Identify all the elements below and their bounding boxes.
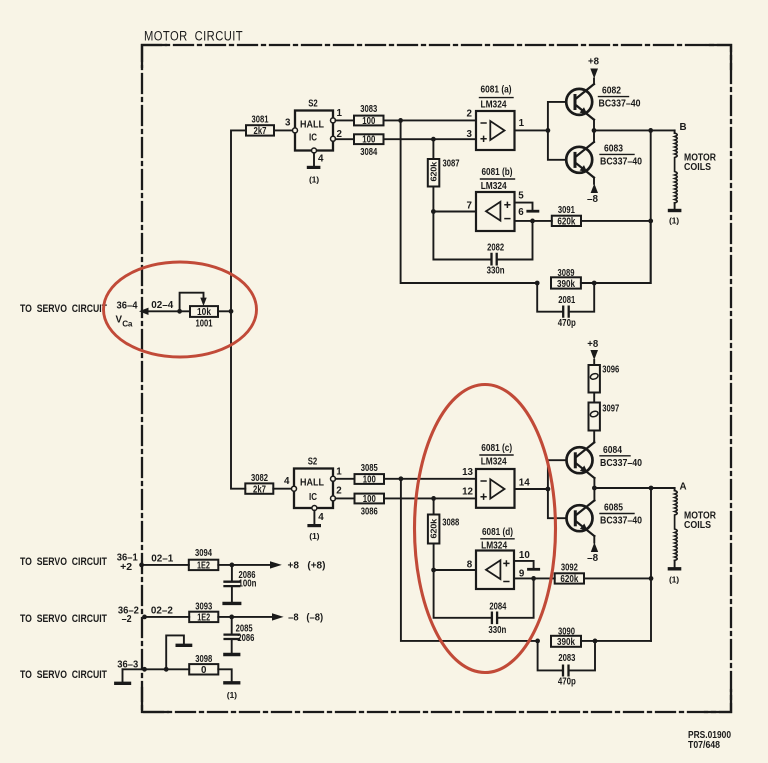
svg-text:1E2: 1E2 xyxy=(197,561,210,572)
resistor 3094 1E2 xyxy=(189,548,219,571)
svg-text:3089: 3089 xyxy=(558,268,575,279)
svg-text:2083: 2083 xyxy=(558,653,575,664)
svg-text:–8: –8 xyxy=(587,553,599,564)
svg-text:1: 1 xyxy=(519,118,525,129)
svg-text:BC337–40: BC337–40 xyxy=(600,458,642,469)
svg-text:6081 (c): 6081 (c) xyxy=(481,443,512,454)
op-amp U 6081(b) xyxy=(467,167,525,231)
svg-text:14: 14 xyxy=(519,478,530,489)
svg-text:100: 100 xyxy=(362,116,375,127)
capacitor 2086 100n xyxy=(224,565,256,604)
resistor 3081 2k7 xyxy=(246,115,274,138)
pin9 wire to 3092 xyxy=(514,577,555,579)
svg-text:3: 3 xyxy=(285,118,291,129)
row 36-1 +2 xyxy=(20,553,174,574)
svg-text:TO SERVO CIRCUIT: TO SERVO CIRCUIT xyxy=(20,613,107,625)
svg-text:6081 (a): 6081 (a) xyxy=(481,85,512,96)
svg-text:3081: 3081 xyxy=(252,115,269,126)
svg-text:1: 1 xyxy=(337,108,343,119)
svg-text:6083: 6083 xyxy=(604,144,623,155)
svg-text:COILS: COILS xyxy=(684,162,711,173)
wire 3081 to hall pin3 xyxy=(274,129,292,131)
frame dash-dot border xyxy=(142,45,731,712)
svg-text:620k: 620k xyxy=(557,217,575,228)
base bus for 6082/6083 xyxy=(548,102,567,160)
resistor 3088 620k vertical xyxy=(428,498,460,570)
row 36-2 -2 xyxy=(20,605,173,625)
svg-text:4: 4 xyxy=(318,512,324,523)
svg-text:620k: 620k xyxy=(560,574,578,585)
transistor Q 6082 BC337-40 xyxy=(566,84,641,120)
svg-text:3086: 3086 xyxy=(361,507,378,518)
svg-text:13: 13 xyxy=(462,467,473,478)
TO SERVO CIRCUIT Vca row xyxy=(20,300,174,329)
svg-text:IC: IC xyxy=(309,492,317,503)
vertical feedback wire x650.7 xyxy=(650,130,652,283)
svg-text:100n: 100n xyxy=(239,578,257,589)
left ground stub row3 xyxy=(122,669,124,681)
wire 3083 to opamp a pin2 xyxy=(384,119,477,121)
wire arrow to pot xyxy=(146,310,190,312)
resistor 3085 100 xyxy=(355,463,385,486)
wire pin2 to 3086 xyxy=(336,497,355,499)
resistor 3096 (0) xyxy=(587,339,619,393)
resistor 3092 620k xyxy=(555,563,584,586)
svg-text:0: 0 xyxy=(201,665,207,676)
svg-text:4: 4 xyxy=(284,476,290,487)
-8 supply arrow (lower) xyxy=(587,536,599,564)
wire: left vertical bus x=231 xyxy=(231,130,246,488)
svg-text:S2: S2 xyxy=(308,456,318,467)
op-amp U 6081(d) xyxy=(467,527,531,589)
resistor 3084 100 xyxy=(354,134,384,158)
svg-text:BC337–40: BC337–40 xyxy=(599,99,641,110)
ground under hall (lower) xyxy=(309,511,324,542)
svg-text:3091: 3091 xyxy=(558,205,575,216)
svg-text:1: 1 xyxy=(336,466,342,477)
hall IC S2 (upper) xyxy=(285,99,342,154)
svg-text:2082: 2082 xyxy=(487,242,504,253)
output 14 to base node xyxy=(515,488,548,490)
raised ground stub xyxy=(166,635,184,669)
potentiometer 10k 1001 xyxy=(180,293,218,330)
svg-text:3085: 3085 xyxy=(361,463,378,474)
pin10 ground stub xyxy=(514,561,539,569)
svg-text:2086: 2086 xyxy=(237,633,254,644)
svg-text:+8: +8 xyxy=(587,339,599,350)
capacitor 2081 470p xyxy=(537,283,594,329)
svg-text:1E2: 1E2 xyxy=(197,613,210,624)
svg-text:330n: 330n xyxy=(488,625,506,636)
svg-text:3098: 3098 xyxy=(195,654,212,665)
svg-text:3087: 3087 xyxy=(443,159,460,170)
svg-text:BC337–40: BC337–40 xyxy=(600,157,642,168)
svg-text:620k: 620k xyxy=(430,518,439,538)
capacitor 2084 330n xyxy=(434,570,534,636)
-8 arrow row2 xyxy=(272,613,284,620)
svg-text:6085: 6085 xyxy=(604,503,623,514)
svg-text:02–1: 02–1 xyxy=(151,554,174,565)
svg-text:LM324: LM324 xyxy=(481,181,507,192)
red ellipse annotation (pot) xyxy=(104,262,257,357)
-8 supply arrow (upper) xyxy=(587,178,599,205)
svg-text:5: 5 xyxy=(518,191,524,202)
svg-text:(1): (1) xyxy=(669,217,679,226)
resistor 3087 620k vertical xyxy=(428,139,460,211)
resistor 3082 2k7 xyxy=(245,473,273,496)
emitter/collector node wires to B xyxy=(593,120,595,142)
svg-text:12: 12 xyxy=(462,486,473,497)
svg-text:–8 (–8): –8 (–8) xyxy=(288,612,323,623)
svg-text:3096: 3096 xyxy=(602,364,619,375)
svg-text:A: A xyxy=(680,482,687,493)
svg-text:7: 7 xyxy=(467,200,473,211)
svg-text:100: 100 xyxy=(362,135,375,146)
svg-text:6: 6 xyxy=(518,207,524,218)
resistor 3097 (0) xyxy=(589,393,620,442)
vertical feedback x651 xyxy=(650,488,652,641)
op-amp U 6081(c) xyxy=(462,443,530,508)
svg-text:10k: 10k xyxy=(197,307,211,318)
resistor 3091 620k xyxy=(552,205,581,228)
svg-text:–2: –2 xyxy=(122,614,132,625)
svg-text:3: 3 xyxy=(467,129,473,140)
svg-text:T07/648: T07/648 xyxy=(688,740,720,751)
+8 supply arrow (upper) xyxy=(588,57,600,85)
svg-text:+2: +2 xyxy=(120,562,133,573)
svg-text:LM324: LM324 xyxy=(481,457,507,468)
svg-text:–8: –8 xyxy=(587,194,599,205)
svg-text:470p: 470p xyxy=(558,318,576,329)
svg-text:3082: 3082 xyxy=(251,473,268,484)
svg-text:3097: 3097 xyxy=(602,403,619,414)
+8 arrow row1 xyxy=(270,561,282,568)
transistor Q 6084 BC337-40 xyxy=(567,442,643,478)
svg-text:(1): (1) xyxy=(309,176,319,185)
resistor 3090 390k xyxy=(535,626,651,648)
svg-text:TO SERVO CIRCUIT: TO SERVO CIRCUIT xyxy=(20,669,107,681)
resistor 3086 100 xyxy=(355,494,385,518)
svg-text:1001: 1001 xyxy=(196,319,213,330)
pin5 ground stub xyxy=(515,203,538,212)
svg-text:IC: IC xyxy=(309,133,317,144)
wire opamp a output to base node xyxy=(515,129,548,131)
resistor 3083 100 xyxy=(354,104,384,127)
svg-text:BC337–40: BC337–40 xyxy=(600,516,642,527)
svg-text:2: 2 xyxy=(336,485,342,496)
svg-text:3092: 3092 xyxy=(561,563,578,574)
wire row1 xyxy=(142,564,189,566)
svg-text:330n: 330n xyxy=(487,266,505,277)
hall IC S2 (lower) xyxy=(284,456,342,510)
node B wire xyxy=(594,129,675,131)
svg-text:2084: 2084 xyxy=(489,602,506,613)
svg-text:COILS: COILS xyxy=(684,520,711,531)
svg-text:100: 100 xyxy=(363,474,376,485)
pin8 wire xyxy=(434,569,476,571)
capacitor 2085/2086 xyxy=(225,617,255,655)
svg-text:HALL: HALL xyxy=(300,477,324,488)
svg-text:+8: +8 xyxy=(588,57,600,68)
wire hall pin2 to 3084 xyxy=(336,138,355,140)
resistor 3093 1E2 xyxy=(189,602,218,624)
wire 3084 to opamp a pin3 xyxy=(384,138,477,140)
svg-text:02–2: 02–2 xyxy=(151,606,174,617)
op-amp U 6081(a) xyxy=(467,85,525,151)
capacitor 2083 470p xyxy=(538,641,595,688)
svg-text:2: 2 xyxy=(467,108,473,119)
wire hall pin1 to 3083 xyxy=(336,119,355,121)
svg-text:TO SERVO CIRCUIT: TO SERVO CIRCUIT xyxy=(20,303,107,315)
svg-text:6082: 6082 xyxy=(602,86,621,97)
svg-text:2k7: 2k7 xyxy=(254,126,267,137)
svg-text:36–4: 36–4 xyxy=(117,301,139,312)
svg-text:3083: 3083 xyxy=(360,104,377,115)
red ellipse annotation (op-amps c,d) xyxy=(415,385,556,673)
capacitor 2082 330n xyxy=(433,212,532,277)
svg-text:S2: S2 xyxy=(308,99,318,110)
pin7 wire xyxy=(433,211,476,213)
node junction x400.6 on pin2 wire xyxy=(398,118,403,123)
svg-text:(1): (1) xyxy=(669,576,679,585)
ground under hall (upper) xyxy=(308,153,324,185)
svg-text:2k7: 2k7 xyxy=(253,484,266,495)
svg-text:LM324: LM324 xyxy=(481,100,507,111)
junction for 3087 top xyxy=(431,137,436,142)
svg-text:3088: 3088 xyxy=(442,518,459,529)
svg-text:3090: 3090 xyxy=(558,626,575,637)
wire pin1 to 3085 xyxy=(336,478,355,480)
svg-text:3084: 3084 xyxy=(360,147,377,158)
svg-text:390k: 390k xyxy=(557,637,575,648)
svg-text:6084: 6084 xyxy=(603,445,622,456)
svg-text:100: 100 xyxy=(363,494,376,505)
transistor Q 6083 BC337-40 xyxy=(566,142,642,178)
svg-text:390k: 390k xyxy=(557,279,575,290)
svg-text:3093: 3093 xyxy=(195,602,212,613)
svg-text:B: B xyxy=(680,122,687,133)
svg-text:MOTOR CIRCUIT: MOTOR CIRCUIT xyxy=(144,29,243,44)
wire vertical x400.6 down to 283 xyxy=(401,120,538,283)
row 36-3 xyxy=(20,659,139,681)
node A wires xyxy=(593,478,595,500)
resistor 3089 390k xyxy=(535,221,651,290)
pin6 wire to 3091 xyxy=(515,220,552,222)
svg-text:2081: 2081 xyxy=(558,295,575,306)
svg-text:10: 10 xyxy=(519,550,530,561)
svg-text:HALL: HALL xyxy=(300,119,324,130)
svg-text:6081 (d): 6081 (d) xyxy=(482,527,513,538)
svg-text:Ca: Ca xyxy=(122,320,133,329)
resistor 3098 0 xyxy=(189,654,218,676)
svg-text:TO SERVO CIRCUIT: TO SERVO CIRCUIT xyxy=(20,556,107,568)
svg-text:(1): (1) xyxy=(227,691,237,700)
svg-text:+8 (+8): +8 (+8) xyxy=(288,560,326,571)
motor coil B xyxy=(669,130,680,225)
svg-text:02–4: 02–4 xyxy=(151,300,174,311)
svg-text:(1): (1) xyxy=(309,532,319,541)
motor coil A xyxy=(669,488,680,585)
left arrow to servo xyxy=(139,308,149,315)
transistor Q 6085 BC337-40 xyxy=(567,500,643,536)
svg-text:3094: 3094 xyxy=(195,548,212,559)
svg-text:620k: 620k xyxy=(430,161,439,181)
svg-text:6081 (b): 6081 (b) xyxy=(482,167,513,178)
svg-text:470p: 470p xyxy=(558,676,576,687)
svg-text:4: 4 xyxy=(318,154,324,165)
